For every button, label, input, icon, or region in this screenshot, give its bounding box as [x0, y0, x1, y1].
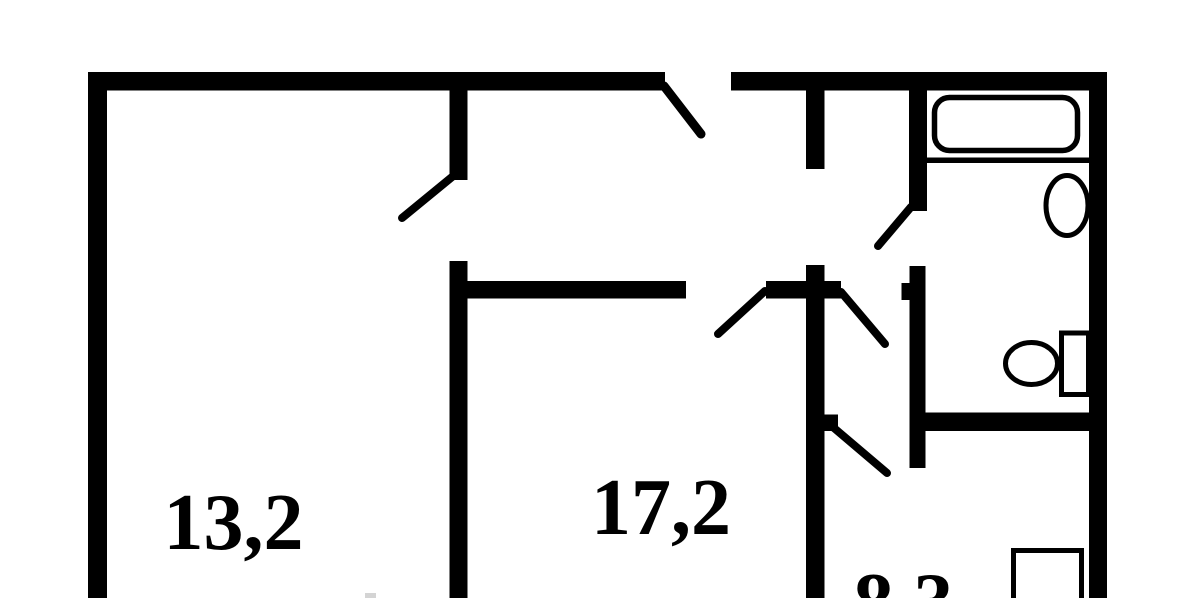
door jamb stub of room 8,3 — [825, 415, 839, 432]
bathroom left wall (upper, beside tub) — [909, 90, 927, 211]
svg-text:13,2: 13,2 — [164, 479, 304, 567]
door swing room 17,2 — [718, 291, 765, 334]
bathtub — [935, 98, 1078, 151]
svg-text:17,2: 17,2 — [591, 464, 731, 552]
wall stub right of 17,2 doorway — [766, 281, 841, 299]
door swing corridor (hinge at stub right end) — [841, 292, 885, 344]
svg-text:8,3: 8,3 — [854, 558, 954, 598]
toilet door jamb bump — [902, 283, 910, 300]
bathtub front edge line — [927, 158, 1089, 164]
door swing room 8,3 — [834, 428, 887, 473]
toilet bowl — [1006, 343, 1058, 385]
faint window mark bottom — [365, 593, 376, 598]
entrance door swing — [664, 86, 701, 134]
outer right wall — [1089, 72, 1107, 598]
hall wall lower segment — [806, 265, 825, 598]
hall wall upper segment — [806, 90, 825, 169]
stove in room 8,3 — [1014, 551, 1082, 598]
toilet tank — [1062, 333, 1089, 395]
washbasin — [1046, 176, 1088, 236]
toilet room left wall — [910, 266, 926, 468]
outer left wall — [88, 72, 107, 598]
outer top wall right segment — [731, 72, 1107, 91]
outer top wall left segment — [88, 72, 665, 91]
bathroom door swing — [878, 207, 911, 246]
door swing room 13,2 — [402, 177, 452, 218]
wall between room 13,2 and room 17,2 — [450, 261, 468, 598]
bottom wall of toilet room — [920, 413, 1089, 432]
top wall of room 17,2 — [464, 281, 686, 299]
wall between room 13,2 and hall (upper) — [450, 88, 468, 180]
